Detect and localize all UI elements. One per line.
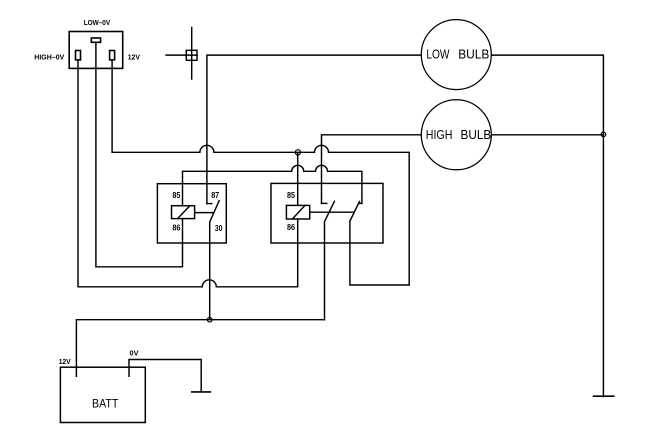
svg-text:LOW–0V: LOW–0V bbox=[84, 18, 111, 27]
svg-text:BULB: BULB bbox=[461, 128, 492, 142]
node: HIGH BULB junction on right bus bbox=[601, 132, 606, 137]
relay K2 box bbox=[271, 183, 383, 243]
svg-text:12V: 12V bbox=[128, 52, 140, 61]
relay K2 coil bbox=[286, 205, 309, 219]
svg-text:BATT: BATT bbox=[92, 397, 119, 411]
wire: HIGH BULB right terminal to right bus bbox=[492, 134, 604, 136]
wire: switch LOW pin down, along y=267, up into relay K1 pin86 to coil bottom bbox=[96, 42, 183, 266]
cross reference symbol horizontal arm bbox=[166, 54, 197, 56]
relay K2 contact2 arm bbox=[350, 202, 360, 222]
node: 12V rail to relay K2 pin85 junction bbox=[295, 150, 300, 155]
relay K1 coil-to-contact link bbox=[195, 212, 214, 214]
wire: switch HIGH pin down, along y=287 with hop over pin30 wire, up into relay K2 pin86 to coil bottom bbox=[78, 60, 298, 287]
relay K1 coil bbox=[172, 206, 195, 219]
relay K1 contact arm + pin30 wire down to battery node bbox=[210, 201, 220, 320]
svg-text:30: 30 bbox=[215, 223, 223, 233]
wire: relay K1 pin85 up, along y=171 with hops, down into relay K2 contact2 top bbox=[183, 165, 362, 205]
wire: battery 0V terminal to ground bbox=[129, 360, 201, 392]
switch S1 body bbox=[69, 32, 123, 69]
wire: LOW BULB right terminal to right bus down to ground bbox=[492, 55, 604, 397]
relay K2 contact1 tick bbox=[322, 202, 327, 204]
cross reference symbol vertical arm bbox=[191, 28, 193, 80]
relay K1 coil diagonal bbox=[178, 206, 191, 219]
svg-text:LOW: LOW bbox=[426, 48, 449, 62]
switch S1 terminal HIGH (left) bbox=[76, 51, 81, 60]
relay K2 coil diagonal bbox=[292, 205, 305, 219]
svg-text:85: 85 bbox=[287, 190, 295, 200]
relay K2 contact2 tick bbox=[359, 202, 362, 204]
svg-text:BULB: BULB bbox=[458, 48, 489, 62]
relay K1 pin87 tick bbox=[207, 203, 212, 205]
node: relay K1 pin30 junction on battery line bbox=[207, 317, 212, 322]
switch S1 terminal LOW (middle) bbox=[91, 38, 100, 42]
svg-text:HIGH: HIGH bbox=[426, 128, 453, 142]
relay K1 box bbox=[157, 184, 226, 243]
relay K2 coil-to-contact link bbox=[310, 211, 354, 213]
lamp HIGH BULB bbox=[421, 100, 491, 170]
svg-text:12V: 12V bbox=[59, 359, 71, 366]
ground (battery 0V) bbox=[192, 391, 211, 393]
svg-text:0V: 0V bbox=[130, 350, 139, 357]
wire: LOW BULB left terminal to relay K1 pin87 bbox=[207, 55, 421, 204]
svg-text:86: 86 bbox=[287, 222, 295, 232]
svg-text:87: 87 bbox=[211, 190, 219, 200]
relay K2 pin85 wire from node down to coil top bbox=[297, 152, 299, 205]
svg-text:85: 85 bbox=[172, 190, 180, 200]
wire: HIGH BULB left terminal down to relay K2 contact1 top bbox=[322, 135, 422, 204]
wire: battery 12V line y=320 from contact1 lower to battery positive bbox=[76, 320, 324, 377]
battery BATT box bbox=[60, 367, 145, 422]
wire: switch 12V pin down, 12V rail y=152 with hops, down right side x=409, to relay K2 contact2 lower bbox=[112, 60, 409, 285]
cross reference symbol grid box bbox=[186, 50, 197, 60]
lamp LOW BULB bbox=[421, 20, 491, 90]
relay K2 contact1 arm + lower wire down to battery line bbox=[325, 201, 335, 319]
switch S1 terminal 12V (right) bbox=[110, 51, 115, 60]
svg-text:HIGH–0V: HIGH–0V bbox=[34, 52, 64, 61]
ground (right bus) bbox=[594, 395, 614, 397]
svg-text:86: 86 bbox=[172, 223, 180, 233]
